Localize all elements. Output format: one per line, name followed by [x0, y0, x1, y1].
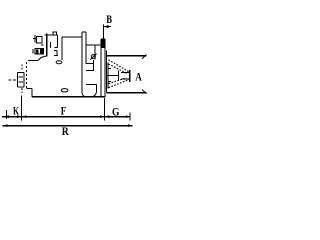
wire rear bottom step — [27, 89, 33, 98]
wire small dash — [41, 44, 44, 46]
solenoid inner edge — [49, 42, 51, 48]
wire rear face dashed — [26, 62, 28, 88]
cone dotted outer top — [109, 60, 130, 72]
arrow G left — [105, 115, 109, 118]
shaft center line — [107, 75, 119, 77]
ext line flange G — [104, 98, 106, 121]
pinion front face — [129, 70, 131, 82]
front bar rib — [82, 32, 86, 93]
boss tick top — [109, 68, 111, 70]
solenoid rear face — [46, 34, 48, 57]
dim A top line — [107, 55, 147, 57]
mounting flange top solid — [101, 39, 105, 48]
pinion tooth bottom — [121, 78, 129, 80]
dim R line — [3, 125, 133, 127]
solenoid lower front marks — [54, 51, 58, 56]
rib bottom fillet — [82, 93, 86, 97]
dim KFG line — [2, 116, 130, 118]
cone dotted outer bottom — [109, 80, 130, 88]
arrow K left — [5, 115, 9, 118]
bolt ellipse lower — [61, 89, 68, 92]
connector block — [33, 48, 44, 54]
rear bracket — [18, 72, 25, 87]
ext line pinion tip — [129, 113, 131, 121]
svg-text:G: G — [112, 104, 119, 118]
solenoid top with bump — [45, 32, 57, 35]
boss tick bottom — [109, 81, 111, 83]
terminal B+ bolt — [33, 35, 42, 43]
ext line left — [6, 110, 8, 119]
svg-text:R: R — [62, 124, 69, 138]
pilot boss — [107, 51, 109, 93]
arrow R right — [128, 124, 132, 127]
svg-text:B: B — [106, 12, 112, 26]
dim B arrow tail — [104, 26, 111, 28]
solenoid collar front — [62, 37, 82, 60]
arrow K right — [17, 115, 21, 118]
arrow G right — [126, 115, 130, 118]
connector block filled part — [40, 48, 44, 54]
wire chamfer to solenoid — [38, 56, 46, 61]
pinion rear face — [118, 71, 120, 81]
arrow F right — [100, 115, 104, 118]
svg-text:A: A — [135, 69, 142, 83]
ext line rear K — [21, 96, 23, 121]
mounting flange — [101, 39, 105, 97]
housing bracket arm — [86, 85, 97, 91]
bracket fillet — [93, 91, 97, 97]
dim A bottom line — [107, 92, 147, 94]
wire body bottom edge — [32, 96, 105, 98]
step detail rect — [86, 60, 94, 71]
svg-text:K: K — [13, 103, 19, 117]
wire dotted centerline upper — [21, 65, 23, 72]
connector block stud left — [36, 50, 38, 54]
pinion tooth top — [121, 72, 129, 74]
wire rear top edge of body — [28, 60, 38, 62]
arrow R left — [3, 124, 7, 127]
drive housing top — [86, 44, 101, 46]
svg-text:F: F — [61, 103, 66, 117]
dim A bottom tick — [142, 90, 147, 94]
flange bolt hole circle — [91, 55, 95, 59]
flange bolt hole slash — [90, 54, 96, 60]
hidden vertical — [94, 45, 96, 60]
cone dotted inner top — [109, 64, 127, 73]
dim B arrowhead — [104, 25, 109, 28]
wire dotted centerline lower — [21, 88, 23, 94]
dim B extension line — [103, 25, 105, 49]
wire dash-dot leader — [9, 79, 17, 81]
arrow F left — [22, 115, 26, 118]
dim A top tick — [142, 55, 147, 59]
solenoid front cap — [53, 35, 58, 48]
bolt ellipse upper — [56, 61, 62, 64]
cone dotted inner bottom — [109, 78, 127, 84]
